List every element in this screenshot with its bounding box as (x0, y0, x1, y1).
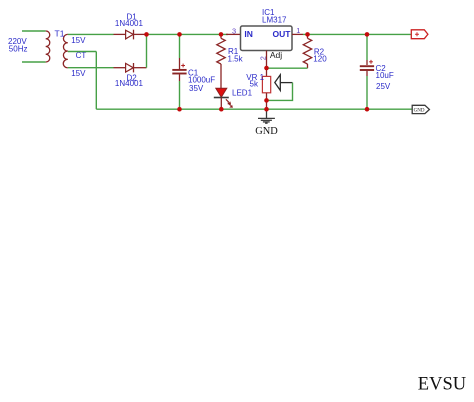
svg-text:15V: 15V (71, 69, 86, 78)
junction node C1 top (177, 32, 182, 37)
diode D1 (114, 30, 147, 40)
capacitor C1 (172, 34, 186, 109)
svg-text:10uF: 10uF (376, 71, 394, 80)
junction node D1 cathode (144, 32, 149, 37)
svg-text:1.5k: 1.5k (228, 55, 244, 64)
label 15V bottom (71, 69, 86, 78)
label C1 (188, 68, 199, 77)
label D2 value 1N4001 (115, 79, 144, 88)
label VR 1 (246, 73, 264, 82)
wire secondary top to D1 (68, 33, 114, 35)
wire CT vertical (95, 52, 97, 110)
label CT (76, 51, 87, 60)
svg-text:OUT: OUT (273, 29, 292, 39)
svg-text:1N4001: 1N4001 (115, 79, 144, 88)
ground flag GND (412, 105, 429, 113)
label C1 voltage 35V (189, 84, 204, 93)
svg-text:15V: 15V (71, 36, 86, 45)
pin name IN (244, 29, 253, 39)
label 15V top (71, 36, 86, 45)
svg-text:1: 1 (296, 26, 300, 35)
svg-text:5k: 5k (250, 80, 259, 89)
label T1 (55, 29, 65, 39)
label R1 value 1.5k (228, 55, 244, 64)
capacitor C2 (360, 34, 374, 109)
junction node C1 bottom (177, 107, 182, 112)
wire R2 bottom to Adj node (267, 67, 308, 69)
LED LED1 (214, 88, 233, 109)
IC U1 pin 1 lead (292, 33, 303, 35)
wire out rail (303, 33, 411, 35)
potentiometer VR1 (262, 68, 292, 100)
svg-text:LM317: LM317 (262, 15, 287, 24)
wire bottom rail (96, 108, 411, 110)
label R2 value 120 (313, 55, 327, 64)
wire wiper to pot bottom (267, 83, 293, 101)
label GND (255, 126, 278, 137)
wire D1 cathode to D2 cathode vertical (146, 34, 148, 67)
svg-text:EVSU: EVSU (418, 375, 466, 395)
output flag + (411, 30, 428, 39)
label R1 (228, 47, 239, 56)
junction node Adj (264, 66, 269, 71)
svg-text:GND: GND (414, 108, 425, 113)
svg-text:120: 120 (313, 55, 327, 64)
pin number 2 (rotated) (259, 56, 268, 60)
title EVSU (418, 375, 466, 395)
label C1 value 1000uF (188, 76, 215, 85)
wire primary bottom (22, 61, 46, 63)
wire primary top (22, 30, 46, 32)
pin number 3 (232, 26, 236, 35)
junction node LED bottom (219, 107, 224, 112)
wire R1 to LED1 (220, 64, 222, 88)
pin name Adj (270, 50, 282, 60)
ground symbol (258, 109, 275, 123)
IC U1 pin 3 lead (226, 33, 241, 35)
svg-text:25V: 25V (376, 82, 391, 91)
transformer T1 primary winding (46, 31, 50, 62)
svg-text:GND: GND (255, 126, 278, 137)
wire CT horizontal (68, 51, 97, 53)
svg-text:50Hz: 50Hz (9, 45, 28, 54)
junction node ground rail (264, 107, 269, 112)
svg-text:T1: T1 (55, 29, 65, 39)
junction node C2 top (365, 32, 370, 37)
svg-text:IN: IN (244, 29, 253, 39)
label IC1 (262, 8, 275, 17)
diode D2 (114, 63, 147, 72)
junction node pot bottom (264, 98, 269, 103)
pin number 1 (296, 26, 300, 35)
label D2 (127, 73, 138, 82)
svg-text:1N4001: 1N4001 (115, 19, 144, 28)
svg-text:LED1: LED1 (232, 89, 253, 98)
svg-text:3: 3 (232, 26, 236, 35)
svg-text:Adj: Adj (270, 50, 282, 60)
wire top rail D1 to IC (147, 33, 229, 35)
label 220V 50Hz (8, 37, 27, 54)
junction node R1 top (219, 32, 224, 37)
label C2 (376, 64, 387, 73)
label C2 voltage 25V (376, 82, 391, 91)
wire pot bottom to ground rail (266, 100, 268, 109)
label D1 (127, 13, 138, 22)
transformer T1 secondary winding (63, 34, 68, 67)
wire secondary bottom to D2 (68, 67, 114, 69)
resistor R1 (217, 34, 225, 64)
label VR1 value 5k (250, 80, 259, 89)
resistor R2 (303, 34, 311, 68)
op-amp regulator IC1 LM317 body (241, 26, 293, 51)
pin name OUT (273, 29, 292, 39)
junction node R2 top (305, 32, 310, 37)
label C2 value 10uF (376, 71, 394, 80)
label LED1 (232, 89, 253, 98)
junction node C2 bottom (365, 107, 370, 112)
label R2 (314, 47, 325, 56)
svg-text:35V: 35V (189, 84, 204, 93)
label IC1 value LM317 (262, 15, 287, 24)
IC1 adj pin lead (266, 51, 268, 69)
label D1 value 1N4001 (115, 19, 144, 28)
